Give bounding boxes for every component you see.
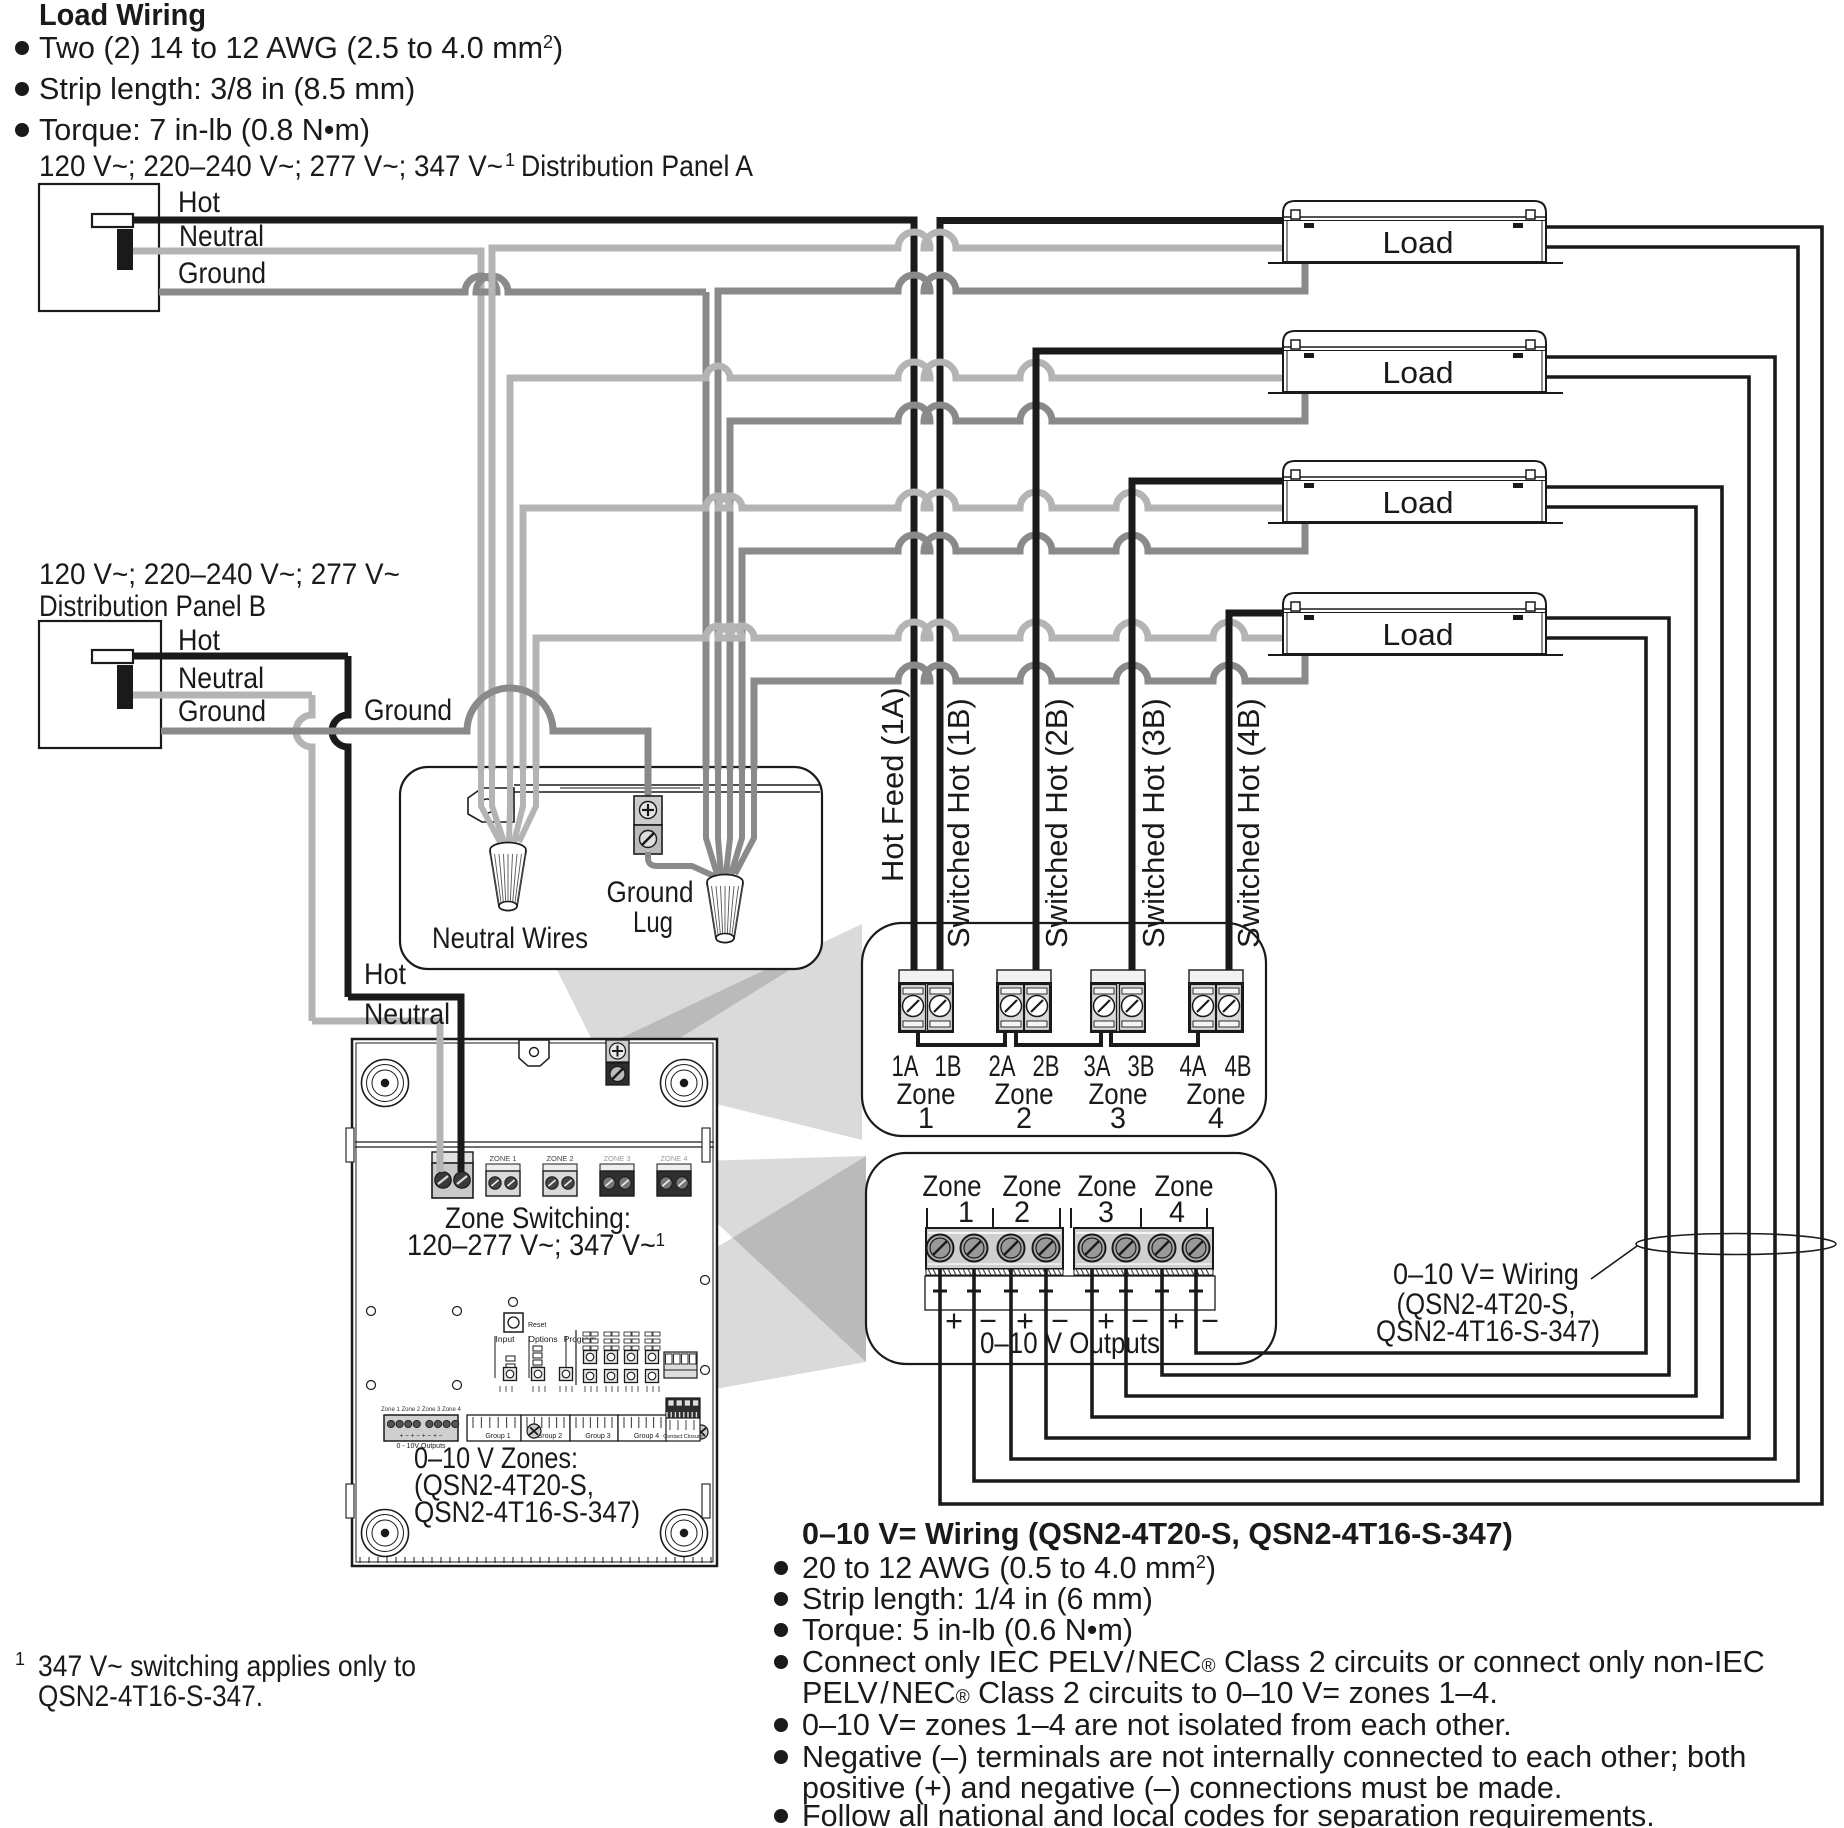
svg-text:Group 4: Group 4 xyxy=(634,1433,659,1440)
svg-text:Group 3: Group 3 xyxy=(585,1433,610,1440)
svg-text:347 V~ switching applies only: 347 V~ switching applies only to xyxy=(38,1650,416,1683)
svg-text:0–10 V Outputs: 0–10 V Outputs xyxy=(980,1327,1160,1360)
svg-text:Hot: Hot xyxy=(364,958,406,991)
svg-text:Load Wiring: Load Wiring xyxy=(39,0,206,32)
svg-text:Ground: Ground xyxy=(607,876,694,909)
svg-text:Switched Hot (1B): Switched Hot (1B) xyxy=(941,698,976,948)
svg-text:PELV / NEC® Class 2 circuits t: PELV / NEC® Class 2 circuits to 0–10 V= … xyxy=(802,1676,1498,1710)
svg-text:Group 1: Group 1 xyxy=(485,1433,510,1440)
svg-text:1: 1 xyxy=(505,150,515,170)
svg-text:0–10 V= Wiring: 0–10 V= Wiring xyxy=(1393,1258,1579,1291)
svg-text:2: 2 xyxy=(1016,1102,1032,1135)
svg-text:+: + xyxy=(1167,1304,1185,1338)
svg-text:120 V~; 220–240 V~; 277 V~: 120 V~; 220–240 V~; 277 V~ xyxy=(39,558,400,591)
svg-text:ZONE 4: ZONE 4 xyxy=(660,1154,687,1163)
svg-text:QSN2-4T16-S-347.: QSN2-4T16-S-347. xyxy=(38,1680,263,1713)
svg-text:Distribution Panel B: Distribution Panel B xyxy=(39,590,266,623)
svg-text:Switched Hot (3B): Switched Hot (3B) xyxy=(1136,698,1171,948)
svg-text:Contact Closure: Contact Closure xyxy=(663,1434,702,1440)
svg-text:Reset: Reset xyxy=(528,1322,546,1329)
svg-text:ZONE 3: ZONE 3 xyxy=(603,1154,630,1163)
svg-text:3: 3 xyxy=(1098,1196,1114,1229)
svg-text:3: 3 xyxy=(1110,1102,1126,1135)
svg-text:Lug: Lug xyxy=(633,906,673,939)
svg-text:Zone: Zone xyxy=(1003,1170,1062,1203)
svg-text:1: 1 xyxy=(15,1649,25,1669)
svg-text:Torque: 7 in-lb (0.8 N•m): Torque: 7 in-lb (0.8 N•m) xyxy=(39,113,370,147)
svg-text:Negative (–) terminals are not: Negative (–) terminals are not internall… xyxy=(802,1740,1746,1774)
svg-text:Options: Options xyxy=(528,1334,557,1344)
svg-text:Load: Load xyxy=(1383,226,1454,260)
svg-text:Load: Load xyxy=(1383,356,1454,390)
svg-text:Torque: 5 in-lb (0.6 N•m): Torque: 5 in-lb (0.6 N•m) xyxy=(802,1613,1133,1647)
svg-text:4: 4 xyxy=(1169,1196,1185,1229)
svg-text:−: − xyxy=(1201,1304,1219,1338)
svg-text:Input: Input xyxy=(496,1334,516,1344)
svg-text:Switched Hot (2B): Switched Hot (2B) xyxy=(1039,698,1074,948)
svg-text:0–10 V= zones 1–4 are not isol: 0–10 V= zones 1–4 are not isolated from … xyxy=(802,1708,1512,1742)
svg-text:0–10 V= Wiring (QSN2-4T20-S, Q: 0–10 V= Wiring (QSN2-4T20-S, QSN2-4T16-S… xyxy=(802,1517,1513,1551)
svg-text:Strip length: 3/8 in (8.5 mm): Strip length: 3/8 in (8.5 mm) xyxy=(39,72,415,106)
svg-text:ZONE 2: ZONE 2 xyxy=(546,1154,573,1163)
svg-text:Connect only IEC PELV / NEC® C: Connect only IEC PELV / NEC® Class 2 cir… xyxy=(802,1645,1765,1679)
svg-text:QSN2-4T16-S-347): QSN2-4T16-S-347) xyxy=(1376,1315,1600,1348)
svg-text:Ground: Ground xyxy=(364,694,452,727)
svg-text:1: 1 xyxy=(918,1102,934,1135)
svg-text:120 V~; 220–240 V~; 277 V~; 34: 120 V~; 220–240 V~; 277 V~; 347 V~ xyxy=(39,150,503,183)
svg-text:Neutral: Neutral xyxy=(179,220,264,253)
svg-text:Load: Load xyxy=(1383,618,1454,652)
svg-text:Switched Hot (4B): Switched Hot (4B) xyxy=(1231,698,1266,948)
svg-text:1: 1 xyxy=(958,1196,974,1229)
svg-text:20 to 12 AWG (0.5 to 4.0 mm2): 20 to 12 AWG (0.5 to 4.0 mm2) xyxy=(802,1551,1216,1585)
svg-text:Hot: Hot xyxy=(178,624,220,657)
svg-text:Hot Feed (1A): Hot Feed (1A) xyxy=(875,687,910,882)
svg-text:Ground: Ground xyxy=(178,257,266,290)
svg-text:Strip length: 1/4 in (6 mm): Strip length: 1/4 in (6 mm) xyxy=(802,1582,1153,1616)
svg-text:120–277 V~; 347 V~1: 120–277 V~; 347 V~1 xyxy=(407,1229,665,1262)
svg-text:Neutral: Neutral xyxy=(364,998,450,1031)
svg-text:+ − + − + − + −: + − + − + − + − xyxy=(399,1433,442,1440)
svg-text:ZONE 1: ZONE 1 xyxy=(489,1154,516,1163)
svg-text:Neutral: Neutral xyxy=(178,662,264,695)
svg-text:Load: Load xyxy=(1383,486,1454,520)
svg-text:2: 2 xyxy=(1014,1196,1030,1229)
svg-text:Hot: Hot xyxy=(178,186,220,219)
svg-text:Two (2) 14 to 12 AWG (2.5 to 4: Two (2) 14 to 12 AWG (2.5 to 4.0 mm2) xyxy=(39,31,563,65)
svg-text:+: + xyxy=(945,1304,963,1338)
svg-text:Follow all national and local: Follow all national and local codes for … xyxy=(802,1799,1655,1828)
svg-text:QSN2-4T16-S-347): QSN2-4T16-S-347) xyxy=(414,1496,640,1529)
svg-text:Ground: Ground xyxy=(178,695,266,728)
svg-text:Zone 1 Zone 2 Zone 3 Zone 4: Zone 1 Zone 2 Zone 3 Zone 4 xyxy=(381,1407,461,1413)
svg-text:Neutral Wires: Neutral Wires xyxy=(432,922,588,955)
svg-text:Distribution Panel A: Distribution Panel A xyxy=(521,150,753,183)
svg-text:4: 4 xyxy=(1208,1102,1224,1135)
